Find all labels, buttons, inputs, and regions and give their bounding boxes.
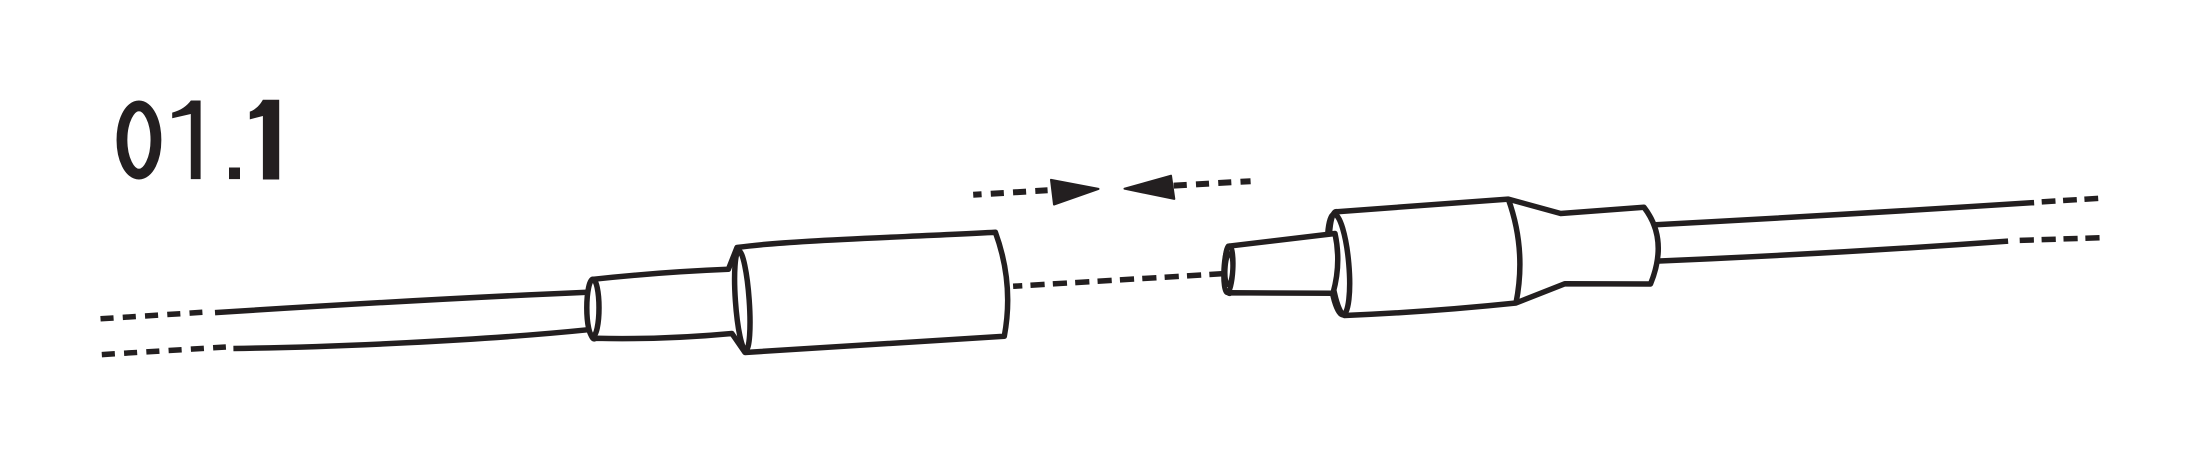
plug body silhouette with strain-relief taper and sleeve [1329,199,1658,315]
digit 0 [122,106,156,174]
right cable dashed continuation (upper line) [2042,198,2101,202]
right insertion arrow head [1125,176,1175,199]
left cable upper edge [215,292,587,312]
plug body/taper crease line [1508,199,1520,303]
digit 1 (regular) [172,101,200,180]
right cable upper edge [1650,203,2034,225]
barrel tip face ellipse [1223,246,1235,293]
axis dashed line between connectors [1013,273,1228,286]
plug body left face ellipse [1324,213,1353,315]
period [229,168,240,180]
left insertion arrow dashed tail [973,190,1047,195]
step label 01.1 [122,100,279,180]
jack body left face ellipse [732,251,753,351]
left cable dashed continuation (lower line) [102,347,226,355]
barrel centre hole ellipse [1225,253,1234,285]
right insertion arrow dashed tail [1174,181,1251,185]
left insertion arrow head [1051,180,1099,205]
ferrule end-cap ellipse [587,279,599,336]
left connector silhouette: ferrule, bevel and jack body [588,232,1008,352]
digit 1 (bold) [250,100,279,180]
left cable lower edge [233,330,588,349]
plug barrel (pin) [1225,234,1338,294]
left cable dashed continuation (upper line) [101,312,203,319]
right cable dashed continuation (lower line) [2020,238,2101,241]
right cable lower edge [1648,241,2008,261]
